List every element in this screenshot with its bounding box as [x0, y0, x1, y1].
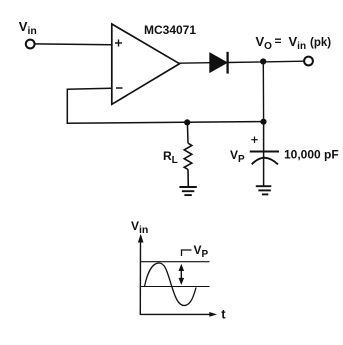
wire output junction down: [262, 62, 264, 123]
wire feedback vertical: [66, 89, 68, 124]
waveform: zero level line: [140, 286, 209, 288]
waveform: y axis: [139, 239, 141, 315]
wire cap top: [263, 122, 265, 159]
node output junction: [260, 58, 266, 64]
waveform: VP callout bracket: [182, 250, 192, 256]
svg-text:t: t: [221, 307, 226, 322]
capacitor C1 top plate: [250, 151, 279, 153]
wire cap bottom: [263, 156, 265, 186]
waveform: peak level line: [140, 261, 209, 263]
capacitor C1 polarity +: [251, 137, 257, 143]
svg-text:=: =: [275, 34, 282, 48]
wire RL top: [186, 122, 189, 143]
op-amp + pin mark: [115, 40, 122, 47]
ground capacitor: [256, 186, 271, 194]
wire Vin to op-amp + input: [35, 43, 112, 46]
op-amp U1 MC34071: [112, 24, 180, 104]
wire - input to feedback: [67, 88, 112, 89]
output terminal: [304, 57, 313, 66]
capacitor C1 bottom plate (curved): [252, 158, 278, 165]
svg-text:(pk): (pk): [310, 37, 331, 49]
wire RL bottom: [187, 169, 189, 187]
node RL junction: [184, 119, 190, 125]
diode D1: [210, 53, 227, 72]
svg-text:MC34071: MC34071: [144, 23, 196, 37]
op-amp - pin mark: [116, 87, 123, 89]
node bottom junction: [260, 119, 266, 125]
wire op-amp output to diode: [179, 62, 210, 65]
wire bottom rail: [67, 122, 264, 124]
input terminal: [26, 40, 35, 49]
waveform: x axis: [140, 313, 210, 315]
svg-text:10,000 pF: 10,000 pF: [284, 148, 339, 162]
waveform: VP amplitude arrow: [180, 268, 182, 281]
wire diode to output terminal: [228, 61, 305, 62]
waveform: sine wave: [145, 263, 197, 306]
resistor RL: [184, 143, 192, 169]
ground RL: [179, 187, 196, 195]
